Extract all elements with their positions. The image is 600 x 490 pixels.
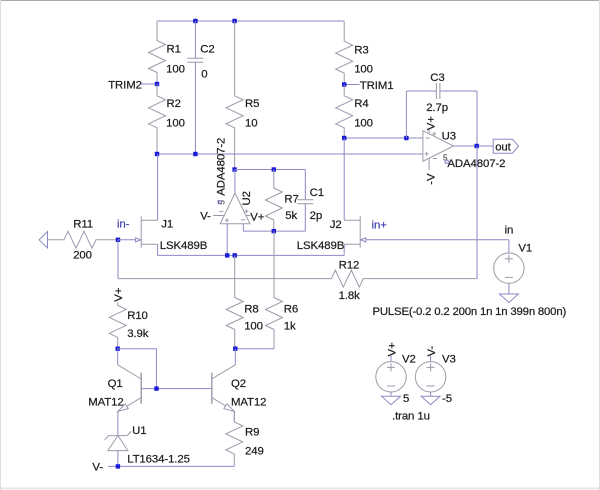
svg-text:R9: R9 [245,427,259,439]
resistor R7 [265,170,282,232]
svg-text:J2: J2 [330,219,342,231]
svg-text:R6: R6 [284,304,298,316]
capacitor C1 [304,170,306,200]
svg-text:R8: R8 [244,304,258,316]
svg-text:V-: V- [426,346,438,357]
svg-text:TRIM2: TRIM2 [108,80,142,92]
wire U3 output [454,145,494,147]
junction U2 in+ [225,253,229,257]
svg-text:0: 0 [201,69,207,81]
junction R8 bottom [233,347,237,351]
svg-text:MAT12: MAT12 [88,397,123,409]
svg-text:LSK489B: LSK489B [160,240,207,252]
wire V3 top [430,355,432,362]
svg-text:-5: -5 [442,393,452,405]
junction R2 bottom [155,152,159,156]
op-amp U2 input marks [225,219,229,221]
node TRIM2 [141,83,157,85]
svg-text:C1: C1 [310,187,324,199]
svg-text:ADA4807-2: ADA4807-2 [215,138,227,196]
svg-text:in: in [505,224,514,236]
wire U2 in+ leg [226,224,228,256]
svg-text:100: 100 [166,118,185,130]
wire R6 bottom leg [235,348,274,350]
svg-text:V1: V1 [518,243,532,255]
svg-text:.tran 1u: .tran 1u [392,411,430,423]
wire top rail [157,20,344,22]
op-amp U3 input marks [426,137,430,139]
voltage source V3 [415,362,445,392]
svg-text:V-: V- [200,211,211,223]
wire U2 out row [235,169,306,171]
op-amp U3 V+ pin [428,129,430,134]
junction R10 bottom [116,347,120,351]
svg-text:R5: R5 [245,98,259,110]
junction R8 top [233,253,237,257]
junction out [475,144,479,148]
transistor Q2 emitter [212,398,232,410]
wire C1 bottom leg [274,230,306,232]
wire Q1 collector link [118,348,157,350]
resistor R11 [48,231,119,248]
junction Q1 base [154,386,158,390]
resistor R1 [149,21,166,84]
wire C3 left leg [405,91,407,138]
transistor Q1 bar [140,373,142,404]
junction C3 left [404,136,408,140]
junction TRIM2 [155,82,159,86]
transistor Q2 collector [234,349,236,365]
svg-text:249: 249 [245,446,264,458]
junction R7 bottom [272,229,276,233]
window border right [599,0,600,490]
svg-text:V2: V2 [402,354,416,366]
svg-text:200: 200 [73,250,92,262]
svg-text:V+: V+ [425,116,437,130]
svg-text:U1: U1 [132,425,146,437]
junction C2 top [193,19,197,23]
svg-text:2p: 2p [310,210,322,222]
svg-text:C2: C2 [200,44,214,56]
ground V3 [430,392,432,396]
svg-text:U2: U2 [241,191,253,205]
svg-text:out: out [495,141,511,153]
jfet J2 source [344,243,360,245]
junction R4 bottom [342,136,346,140]
wire V1 top [508,240,510,253]
window border top [0,0,600,1]
svg-text:V+: V+ [250,211,264,223]
voltage source V2 [376,362,406,392]
wire V2 top [390,355,392,362]
jfet J1 channel [140,216,142,248]
svg-text:LSK489B: LSK489B [297,240,344,252]
resistor R10 [109,303,126,349]
svg-text:5: 5 [403,393,409,405]
transistor Q2 bar [211,373,213,404]
svg-text:1k: 1k [284,321,296,333]
wire left mid row [157,153,423,155]
svg-text:-V: -V [425,173,437,185]
wire source row [158,254,345,256]
resistor R9 [226,411,243,466]
node TRIM1 [344,84,359,86]
svg-text:LT1634-1.25: LT1634-1.25 [127,453,190,465]
junction V- rail [116,464,120,468]
ground V2 [390,392,392,396]
jfet J2 gate [366,239,509,241]
op-amp U2 body [220,193,250,224]
ground V1 [508,283,510,294]
voltage source V1 [494,253,524,283]
svg-text:in-: in- [117,219,130,231]
resistor R6 [266,231,283,349]
svg-text:Q1: Q1 [108,378,123,390]
resistor R4 [336,85,353,139]
svg-text:R7: R7 [284,194,298,206]
svg-text:MAT12: MAT12 [231,397,266,409]
svg-text:V+: V+ [386,342,398,356]
junction in- [116,238,120,242]
capacitor C3 [406,90,436,92]
junction R5 top [232,19,236,23]
op-amp U2 V+ pin [246,215,251,217]
svg-text:TRIM1: TRIM1 [360,80,394,92]
wire out down leg [476,146,478,279]
port out [493,139,518,153]
wire U3 inverting row [344,137,423,139]
svg-text:1.8k: 1.8k [339,290,361,302]
wire C3 right leg [476,91,478,146]
transistor Q1 collector [117,349,119,365]
svg-text:R12: R12 [339,260,360,272]
svg-text:100: 100 [354,64,373,76]
svg-text:PULSE(-0.2 0.2 200n 1n 1n 399n: PULSE(-0.2 0.2 200n 1n 1n 399n 800n) [373,306,567,318]
jfet J1 gate [118,239,135,241]
wire U2 in- leg [242,224,244,231]
op-amp U2 V- pin [213,215,224,217]
svg-text:3.9k: 3.9k [127,328,149,340]
svg-text:100: 100 [244,321,263,333]
jfet J1 source [141,243,157,245]
svg-text:U3: U3 [442,131,456,143]
jfet J2 channel [359,216,361,248]
svg-text:R11: R11 [73,219,93,231]
svg-text:V+: V+ [113,287,125,301]
svg-text:5k: 5k [285,210,297,222]
svg-text:ADA4807-2: ADA4807-2 [447,158,505,170]
svg-text:R1: R1 [167,44,181,56]
diode U1 zener [109,435,128,437]
svg-text:10: 10 [245,118,257,130]
capacitor C2 [194,21,196,58]
svg-text:J1: J1 [161,219,173,231]
transistor Q1 emitter [122,398,142,410]
op-amp U3 body [423,131,454,162]
svg-text:R4: R4 [354,98,368,110]
wire V- rail [108,465,235,467]
resistor R3 [336,21,353,85]
svg-text:in+: in+ [372,219,388,231]
resistor R8 [226,255,243,348]
junction C2 bottom [193,152,197,156]
port in- input [39,232,47,249]
wire in- down leg [117,240,119,279]
window border left [0,0,1,490]
transistor Q1 base [141,388,212,390]
svg-text:100: 100 [166,64,185,76]
jfet J1 drain [141,219,157,221]
junction U2 out row left [232,167,236,171]
junction TRIM1 [342,82,346,86]
svg-text:R3: R3 [354,45,368,57]
svg-text:Q2: Q2 [231,378,246,390]
jfet J2 drain [344,219,360,221]
junction R7 top [272,167,276,171]
resistor R5 [226,21,243,170]
svg-text:R10: R10 [127,310,148,322]
svg-text:V-: V- [92,462,103,474]
svg-text:100: 100 [354,118,373,130]
resistor R2 [149,84,166,154]
op-amp U3 V- pin [428,158,430,170]
window border bottom [0,488,600,489]
resistor R12 [118,270,477,287]
svg-text:C3: C3 [430,72,444,84]
wire U2 output [234,170,236,194]
svg-text:R2: R2 [167,98,181,110]
svg-text:V3: V3 [442,354,456,366]
svg-text:2.7p: 2.7p [426,102,448,114]
